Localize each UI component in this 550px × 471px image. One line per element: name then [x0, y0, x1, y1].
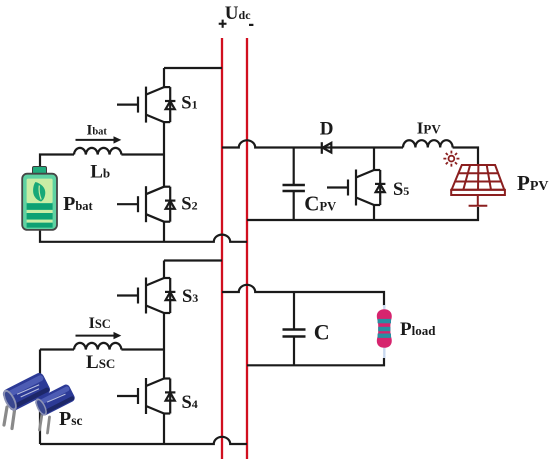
svg-text:ISC: ISC: [89, 315, 111, 332]
svg-text:C: C: [314, 319, 330, 344]
svg-text:LSC: LSC: [86, 352, 115, 373]
svg-text:Lb: Lb: [90, 162, 110, 183]
svg-text:IPV: IPV: [417, 119, 442, 138]
svg-text:Pload: Pload: [400, 319, 436, 340]
svg-text:D: D: [320, 118, 334, 139]
